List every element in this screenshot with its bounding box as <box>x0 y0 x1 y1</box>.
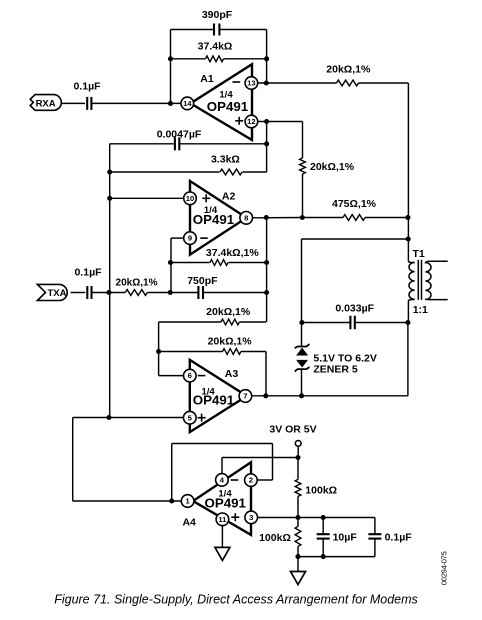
svg-text:20kΩ,1%: 20kΩ,1% <box>206 306 251 318</box>
wire <box>302 238 409 240</box>
node <box>168 260 173 265</box>
svg-text:OP491: OP491 <box>193 393 235 408</box>
wire <box>298 556 375 558</box>
node <box>106 415 111 420</box>
op-amp A2 <box>190 181 247 255</box>
svg-text:00294-075: 00294-075 <box>439 551 448 585</box>
svg-text:OP491: OP491 <box>207 99 249 114</box>
minus A4 <box>231 479 239 481</box>
wire <box>297 518 299 527</box>
node <box>168 290 173 295</box>
svg-text:3V OR 5V: 3V OR 5V <box>269 424 316 436</box>
wire <box>302 174 304 218</box>
wire <box>110 171 220 173</box>
svg-text:7: 7 <box>243 392 247 401</box>
wire <box>91 102 181 104</box>
pin 4 <box>216 474 229 487</box>
svg-text:RXA: RXA <box>36 99 56 110</box>
svg-text:8: 8 <box>244 213 248 222</box>
node <box>299 320 304 325</box>
resistor 475 1% <box>332 198 377 220</box>
node <box>106 290 111 295</box>
zener D2 <box>295 360 310 372</box>
svg-text:11: 11 <box>218 515 227 524</box>
svg-text:6: 6 <box>188 371 192 380</box>
op-amp A4 <box>182 462 251 535</box>
pin 3 <box>245 511 258 524</box>
svg-text:100kΩ: 100kΩ <box>305 484 337 496</box>
label T1 <box>413 248 425 260</box>
svg-text:10: 10 <box>186 194 194 203</box>
node <box>321 554 326 559</box>
svg-text:2: 2 <box>249 476 253 485</box>
minus A3 <box>198 375 206 377</box>
terminal 3V/5V <box>295 441 301 447</box>
resistor 37.4k 1% <box>206 247 259 265</box>
svg-text:0.1µF: 0.1µF <box>74 267 102 279</box>
wire <box>220 29 266 31</box>
wire <box>252 217 302 219</box>
node <box>405 320 410 325</box>
resistor 20k 1% <box>326 63 371 86</box>
wire <box>240 321 267 323</box>
wire <box>203 292 267 294</box>
wire <box>266 122 268 173</box>
node <box>264 56 269 61</box>
resistor 20k 1% vertical <box>300 158 355 174</box>
pin 5 <box>184 411 197 424</box>
capacitor 0.033uF <box>335 302 374 329</box>
wire bias vertical <box>109 144 111 418</box>
wire <box>73 417 184 419</box>
node <box>405 215 410 220</box>
svg-text:0.1µF: 0.1µF <box>385 532 413 544</box>
node <box>168 56 173 61</box>
resistor 37.4k <box>198 41 233 62</box>
svg-text:37.4kΩ: 37.4kΩ <box>198 41 233 53</box>
svg-text:OP491: OP491 <box>193 212 235 227</box>
wire <box>224 58 267 60</box>
svg-text:475Ω,1%: 475Ω,1% <box>332 198 377 210</box>
wire <box>302 217 343 219</box>
wire <box>297 458 299 480</box>
pin 9 <box>184 232 197 245</box>
wire <box>252 395 408 397</box>
svg-text:A1: A1 <box>200 73 214 85</box>
pin 12 <box>245 115 258 128</box>
ground <box>215 547 230 560</box>
pin 8 <box>240 212 253 225</box>
wire feedback A4 <box>172 444 273 502</box>
caption <box>54 592 418 606</box>
wire <box>297 557 299 572</box>
svg-text:TXA: TXA <box>48 288 67 299</box>
node <box>321 515 326 520</box>
svg-text:0.1µF: 0.1µF <box>73 80 101 92</box>
op-amp A3 <box>190 360 247 432</box>
wire <box>147 292 198 294</box>
node <box>168 101 173 106</box>
wire <box>355 322 408 324</box>
svg-text:37.4kΩ,1%: 37.4kΩ,1% <box>206 247 259 259</box>
wire <box>258 82 337 84</box>
ground <box>291 572 306 585</box>
wire <box>159 351 223 353</box>
wire <box>265 352 267 396</box>
capacitor 0.1uF RXA <box>73 80 101 110</box>
node <box>264 80 269 85</box>
wire <box>61 102 85 104</box>
minus A2 <box>200 237 208 239</box>
wire <box>297 547 299 557</box>
capacitor 10uF <box>317 518 358 557</box>
capacitor 750pF <box>187 275 218 299</box>
label 3V OR 5V <box>269 424 316 436</box>
pin 14 <box>181 97 194 110</box>
wire <box>266 218 268 323</box>
wire <box>171 29 214 31</box>
svg-text:100kΩ: 100kΩ <box>259 532 291 544</box>
wire <box>110 197 184 199</box>
label zener <box>313 353 376 376</box>
node <box>107 169 112 174</box>
wire <box>302 122 304 159</box>
wire <box>158 322 160 376</box>
node <box>406 236 411 241</box>
wire <box>229 262 267 264</box>
transformer T1 core <box>418 260 421 300</box>
svg-text:1:1: 1:1 <box>413 304 428 316</box>
node <box>295 554 300 559</box>
wire <box>301 370 303 396</box>
wire <box>297 447 299 458</box>
wire <box>171 58 206 60</box>
wire <box>159 321 221 323</box>
wire <box>170 30 172 104</box>
wire pin4 supply <box>222 458 298 476</box>
wire <box>221 525 223 547</box>
wire <box>297 496 299 517</box>
svg-text:ZENER 5: ZENER 5 <box>313 363 358 375</box>
pin 2 <box>245 474 258 487</box>
svg-text:3.3kΩ: 3.3kΩ <box>211 154 240 166</box>
svg-text:3: 3 <box>249 513 253 522</box>
wire <box>241 351 266 353</box>
svg-text:9: 9 <box>188 234 192 243</box>
plus A4 <box>231 513 239 521</box>
plus A2 <box>202 194 210 202</box>
node <box>264 141 269 146</box>
svg-text:12: 12 <box>247 117 255 126</box>
wire <box>301 239 303 346</box>
svg-text:0.033µF: 0.033µF <box>335 302 374 314</box>
pin 11 <box>216 513 229 526</box>
svg-text:Figure 71. Single-Supply, Dire: Figure 71. Single-Supply, Direct Access … <box>54 592 418 606</box>
wire <box>72 418 74 502</box>
node <box>263 393 268 398</box>
wire <box>302 322 350 324</box>
node <box>295 455 300 460</box>
pin 13 <box>245 77 258 90</box>
capacitor 0.1uF TXA <box>74 267 102 299</box>
capacitor 0.1uF bottom <box>368 518 412 557</box>
resistor 20k 1% TXA <box>116 278 158 296</box>
connector RXA <box>30 95 61 111</box>
resistor 100k upper <box>295 479 337 496</box>
svg-text:390pF: 390pF <box>202 9 233 21</box>
node <box>264 260 269 265</box>
transformer T1 primary <box>408 83 414 323</box>
wire <box>257 517 375 519</box>
pin 7 <box>239 390 252 403</box>
svg-text:13: 13 <box>247 79 255 88</box>
wire <box>407 323 409 396</box>
wire <box>243 171 267 173</box>
svg-text:A4: A4 <box>182 516 196 528</box>
node <box>264 119 269 124</box>
label 1:1 <box>413 304 428 316</box>
resistor 20k 1% rowB <box>208 336 253 355</box>
wire <box>73 500 182 502</box>
resistor 100k lower <box>259 526 301 546</box>
wire <box>71 292 86 294</box>
svg-text:14: 14 <box>183 99 192 108</box>
wire <box>171 238 184 292</box>
label sidebar <box>439 551 448 585</box>
wire <box>359 82 409 84</box>
svg-text:0.0047µF: 0.0047µF <box>157 128 202 140</box>
pin 6 <box>184 369 197 382</box>
wire <box>365 217 408 219</box>
svg-text:A2: A2 <box>222 191 236 203</box>
zener D1 <box>295 344 310 355</box>
capacitor 0.0047uF <box>157 128 202 150</box>
wire <box>258 121 303 123</box>
resistor 20k 1% rowA <box>206 306 251 325</box>
node <box>300 215 305 220</box>
capacitor 390pF <box>202 9 233 35</box>
pin 1 <box>181 495 194 508</box>
node <box>169 498 174 503</box>
wire <box>180 143 267 145</box>
node <box>299 393 304 398</box>
wire <box>266 30 268 84</box>
svg-text:20kΩ,1%: 20kΩ,1% <box>208 336 253 348</box>
wire <box>170 262 210 264</box>
svg-text:20kΩ,1%: 20kΩ,1% <box>310 161 355 173</box>
svg-text:20kΩ,1%: 20kΩ,1% <box>116 278 158 289</box>
node <box>295 515 300 520</box>
wire <box>159 375 184 377</box>
svg-text:10µF: 10µF <box>333 532 358 544</box>
pin 10 <box>184 192 197 205</box>
resistor 3.3k <box>211 154 242 175</box>
wire <box>110 143 174 145</box>
wire <box>92 292 126 294</box>
plus A1 <box>235 117 243 125</box>
svg-text:T1: T1 <box>413 248 425 260</box>
connector TXA <box>37 284 67 300</box>
op-amp A1 <box>191 64 253 140</box>
node <box>264 215 269 220</box>
svg-text:A3: A3 <box>225 368 239 380</box>
node <box>264 290 269 295</box>
node <box>156 349 161 354</box>
svg-text:750pF: 750pF <box>187 275 218 287</box>
svg-text:OP491: OP491 <box>204 496 246 511</box>
svg-text:20kΩ,1%: 20kΩ,1% <box>326 63 371 75</box>
node <box>107 196 112 201</box>
minus A1 <box>233 81 241 83</box>
plus A3 <box>198 414 206 422</box>
transformer T1 secondary <box>425 261 447 299</box>
